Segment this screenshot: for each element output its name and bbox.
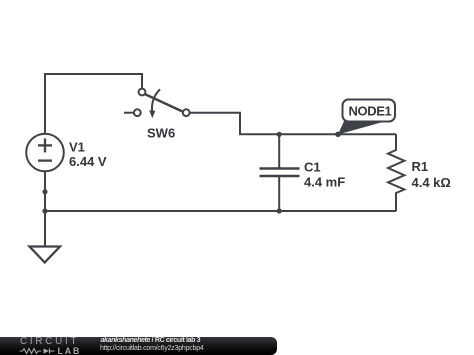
switch SW6 <box>124 89 190 117</box>
CircuitLab logo <box>20 338 79 346</box>
logo resistor squiggle <box>20 349 42 354</box>
svg-text:4.4 kΩ: 4.4 kΩ <box>412 175 451 190</box>
footer bar <box>0 337 277 355</box>
svg-text:V1: V1 <box>69 140 85 155</box>
switch arrow head <box>149 110 155 118</box>
junction dots <box>42 189 47 194</box>
capacitor C1 <box>260 169 300 177</box>
svg-text:R1: R1 <box>412 159 429 174</box>
wire <box>278 134 280 168</box>
voltage source V1 <box>26 134 64 172</box>
svg-text:4.4 mF: 4.4 mF <box>304 174 345 189</box>
svg-text:NODE1: NODE1 <box>349 104 392 119</box>
ground <box>30 247 61 263</box>
node NODE1 pointer <box>338 120 381 135</box>
node NODE1 box <box>343 100 396 122</box>
wire <box>190 113 396 135</box>
svg-text:C1: C1 <box>304 159 321 174</box>
wire <box>45 74 142 134</box>
wire <box>278 176 280 211</box>
svg-text:6.44 V: 6.44 V <box>69 154 107 169</box>
footer credits <box>101 337 201 344</box>
wire <box>45 210 396 212</box>
resistor R1 <box>388 134 404 211</box>
wire <box>44 171 46 246</box>
logo diode <box>44 348 50 353</box>
svg-text:SW6: SW6 <box>147 125 175 140</box>
